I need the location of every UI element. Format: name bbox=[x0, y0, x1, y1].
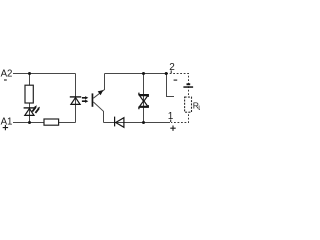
LED indicator (input) bbox=[24, 105, 40, 115]
wire TVS branch vertical bbox=[143, 74, 145, 123]
resistor R input series (vertical) bbox=[25, 85, 33, 103]
node dot input LED branch top bbox=[28, 72, 31, 75]
diode D1 series output (points left) bbox=[114, 117, 124, 128]
wire A2 top input rail bbox=[13, 73, 76, 75]
terminal 2 tick bbox=[170, 70, 172, 73]
wire stub from terminal 2 node bbox=[167, 74, 175, 97]
wire A1 bottom input rail bbox=[13, 122, 76, 124]
wire optocoupler LED branch vertical bbox=[75, 74, 77, 123]
label minus under A2 bbox=[4, 79, 7, 81]
label minus at terminal 2 bbox=[174, 79, 178, 81]
transistor Q1 emitter arrowhead bbox=[98, 90, 104, 95]
opto light arrows bbox=[82, 96, 88, 103]
wire external dashed circuit bbox=[166, 74, 188, 123]
node dot terminal 2 bbox=[165, 72, 168, 75]
node dot TVS top bbox=[142, 72, 145, 75]
wire input LED branch vertical bbox=[29, 74, 31, 123]
battery cell (external supply) bbox=[183, 83, 193, 88]
label plus at terminal 1 bbox=[170, 126, 175, 131]
node dot TVS bottom bbox=[142, 121, 145, 124]
node dot input LED branch bottom bbox=[28, 121, 31, 124]
svg-text:A2: A2 bbox=[1, 68, 13, 79]
transistor Q1 phototransistor base bar bbox=[92, 93, 94, 106]
wire emitter to bottom output rail bbox=[93, 102, 103, 123]
wire collector to top output rail bbox=[93, 74, 166, 99]
terminal 1 tick bbox=[170, 120, 172, 123]
TVS suppressor diode (bidirectional) bbox=[139, 93, 148, 110]
svg-text:L: L bbox=[198, 105, 200, 112]
svg-text:A1: A1 bbox=[1, 116, 13, 127]
label plus under A1 bbox=[3, 125, 8, 130]
svg-text:2: 2 bbox=[169, 62, 175, 73]
LED optocoupler emitter diode bbox=[70, 97, 81, 105]
resistor RL load (dashed, external) bbox=[185, 97, 192, 112]
resistor series (horizontal) bbox=[44, 119, 59, 125]
wire bottom output rail bbox=[104, 122, 171, 124]
